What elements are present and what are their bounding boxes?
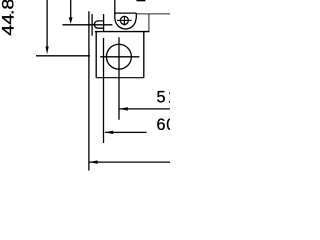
svg-text:.8: .8 (0, 0, 17, 15)
svg-text:51: 51 (157, 88, 171, 106)
svg-text:44: 44 (0, 14, 17, 36)
svg-text:60: 60 (157, 116, 171, 134)
